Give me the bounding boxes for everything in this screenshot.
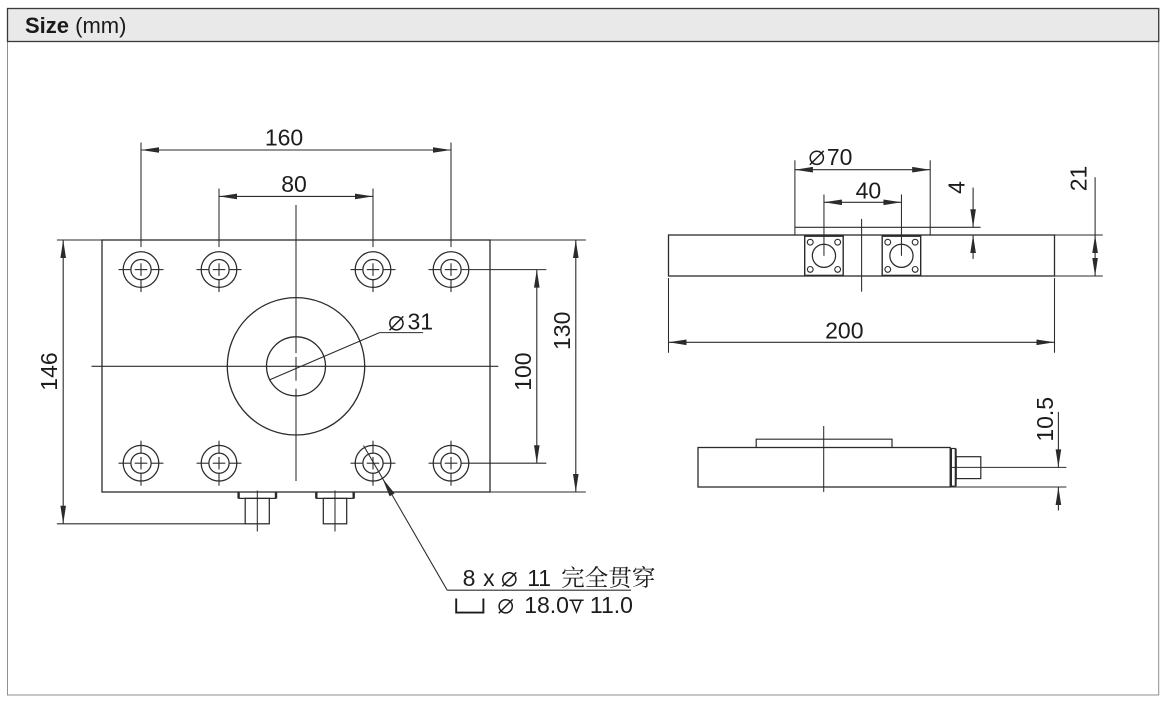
svg-text:10.5: 10.5 (1032, 397, 1058, 442)
plate outline (102, 240, 490, 492)
tab 1 flange (237, 492, 239, 498)
center bore circle dia 31 (267, 337, 326, 396)
dim 21 line (1094, 177, 1096, 235)
dim 100 line (536, 270, 538, 464)
bar body side view (698, 448, 950, 488)
cable bottom / bar bottom extension (950, 486, 1066, 488)
dim 80 extension lines (218, 189, 220, 248)
bar body front view (669, 235, 1055, 276)
dim 200 line (669, 341, 1055, 343)
dim 130 extension lines (490, 239, 586, 241)
bolt hole bottom-right (433, 445, 469, 481)
svg-text:70: 70 (827, 144, 853, 170)
svg-text:Size (mm): Size (mm) (25, 13, 126, 38)
dim 130 line (575, 240, 577, 492)
svg-text:40: 40 (856, 177, 882, 203)
center boss outer circle (227, 298, 364, 435)
dia 31 leader (269, 333, 379, 380)
boss strip left edge / dia70 ext (794, 160, 796, 235)
svg-text:160: 160 (265, 125, 303, 151)
dim 21 extension lines (1055, 234, 1103, 236)
bolt hole bottom-mid-left (201, 445, 237, 481)
dim 4 arrows (972, 188, 974, 228)
square flange 1 (805, 236, 844, 275)
boss strip side view (756, 439, 892, 447)
svg-text:18.0: 18.0 (524, 592, 569, 618)
dim 40 line (824, 201, 902, 203)
square flange 1 centerline (823, 195, 825, 256)
side view centerline (823, 426, 825, 492)
svg-text:x: x (483, 565, 495, 591)
boss strip right edge / dia70 ext (929, 160, 931, 235)
tab 1 centerline (256, 491, 258, 532)
plate horizontal centerline (92, 365, 499, 367)
svg-text:200: 200 (825, 318, 863, 344)
view centerline (861, 219, 863, 292)
tab 2 body (323, 498, 346, 523)
tab 1 body (245, 498, 269, 523)
tab 2 centerline (334, 491, 336, 532)
tab 2 flange (315, 492, 317, 498)
bolt hole top-mid-right (355, 252, 391, 288)
dim 80 line (219, 195, 373, 197)
bolt hole top-left (123, 252, 159, 288)
header bar (8, 9, 1159, 42)
dim 10.5 arrows (1057, 412, 1059, 468)
svg-text:8: 8 (463, 565, 476, 591)
callout text line 2 (456, 599, 483, 613)
connector flange (950, 449, 952, 487)
bolt hole bottom-mid-right (355, 445, 391, 481)
dia 31 text (390, 317, 403, 330)
callout leader (364, 446, 448, 591)
dim 200 extension lines (668, 278, 670, 353)
svg-text:130: 130 (549, 312, 575, 350)
bolt hole bottom-left (123, 445, 159, 481)
svg-text:11: 11 (527, 565, 551, 591)
square flange 2 (882, 236, 921, 275)
svg-text:100: 100 (510, 352, 536, 390)
dim 146 line (62, 240, 64, 524)
bolt hole top-mid-left (201, 252, 237, 288)
connector plug (956, 457, 981, 479)
dim dia70 line (795, 169, 930, 171)
svg-text:146: 146 (36, 352, 62, 390)
dim 160 extension lines (140, 143, 142, 248)
extension lines dim 100 (461, 269, 547, 271)
svg-text:80: 80 (281, 171, 307, 197)
square flange 2 centerline (900, 195, 902, 256)
cable top line (950, 466, 1066, 468)
dim dia70 text (810, 151, 823, 164)
svg-text:21: 21 (1066, 166, 1092, 192)
bolt hole top-right (433, 252, 469, 288)
svg-text:11.0: 11.0 (590, 592, 633, 618)
dim 160 line (141, 149, 451, 151)
svg-text:4: 4 (944, 181, 970, 194)
plate vertical centerline (295, 205, 297, 353)
dim 146 extension lines (57, 239, 102, 241)
boss strip top line (795, 226, 981, 228)
svg-text:31: 31 (408, 309, 434, 335)
